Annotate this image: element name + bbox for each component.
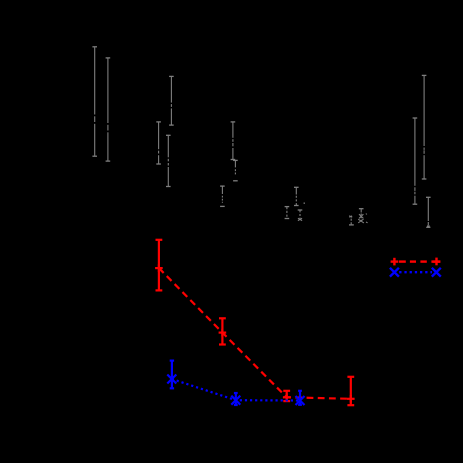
- red errorbar P1: [156, 240, 163, 291]
- grey errorbar slot1 b: [106, 58, 111, 161]
- grey errorbar slot4 c: [298, 202, 305, 220]
- legend red plus left: [391, 260, 399, 262]
- grey errorbar slot3 a: [220, 186, 225, 206]
- red errorbar P3: [283, 391, 290, 401]
- grey error bar series: [92, 47, 430, 228]
- grey errorbar slot3 c: [233, 160, 238, 180]
- red point P3: [283, 394, 291, 402]
- legend blue x right: [432, 268, 441, 277]
- grey errorbar slot4 b: [294, 187, 299, 205]
- legend blue dots: [399, 271, 432, 273]
- grey errorbar slot6 b: [422, 75, 427, 179]
- grey errorbar slot6 a: [413, 118, 418, 204]
- grey errorbar slot2 b: [166, 135, 171, 186]
- red point P4: [347, 395, 355, 403]
- red point P1: [155, 264, 163, 272]
- blue series (dotted line with x markers and error bars): [167, 361, 304, 405]
- legend blue entry: [390, 268, 441, 277]
- grey errorbar slot2 a: [156, 122, 161, 164]
- red line segment P1-P4: [159, 268, 351, 399]
- grey errorbar slot5 a: [349, 216, 354, 225]
- blue errorbar Q3: [298, 391, 302, 405]
- legend red dashes: [399, 260, 406, 262]
- blue point Q1: [167, 375, 176, 384]
- grey errorbar slot2 c: [169, 76, 174, 125]
- red errorbar P4: [347, 377, 354, 405]
- grey errorbar slot3 b: [231, 122, 236, 160]
- grey errorbar slot5 b: [358, 209, 367, 223]
- grey errorbar slot1 a: [92, 47, 97, 156]
- legend red entry: [391, 258, 441, 266]
- blue errorbar Q2: [234, 393, 238, 405]
- blue errorbar Q1: [170, 361, 174, 389]
- blue line segment Q1-Q3: [172, 379, 300, 401]
- legend blue x left: [390, 268, 399, 277]
- grey errorbar slot4 a: [285, 207, 290, 219]
- legend red plus right: [431, 260, 440, 262]
- red series (dashed line with plus markers and error bars): [155, 240, 355, 405]
- grey errorbar slot6 c: [426, 197, 431, 227]
- red point P2: [219, 329, 227, 337]
- red errorbar P2: [219, 318, 226, 344]
- blue point Q2: [231, 396, 240, 405]
- blue point Q3: [296, 396, 305, 405]
